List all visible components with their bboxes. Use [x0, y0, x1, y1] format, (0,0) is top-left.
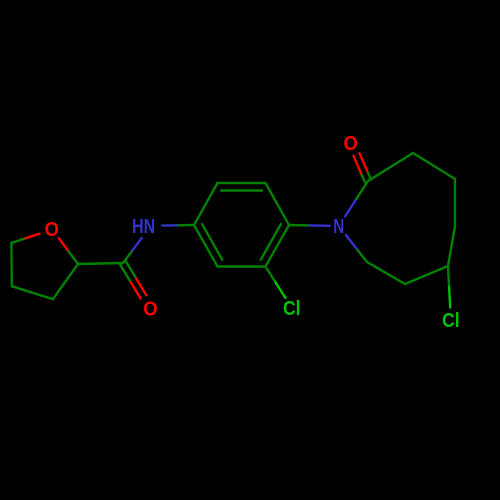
lactam C=O double bond line1 (C2r half)	[367, 171, 371, 180]
amide C=O double bond line2 (AC half)	[126, 261, 137, 279]
aromatic inner line BL-L	[202, 224, 222, 260]
svg-text:O: O	[45, 219, 59, 241]
bond O1-C2 (oxolane) (C2 half)	[68, 251, 78, 264]
lactam C=O double bond line1 (Or half)	[360, 153, 368, 171]
bond O1-C2 (oxolane) (O1 half)	[59, 238, 69, 251]
bond C5-O1 (oxolane) (C5 half)	[11, 238, 25, 243]
aromatic inner line R-BR	[261, 224, 281, 260]
lactam C=O double bond line2 (C2r half)	[361, 174, 365, 183]
bond C8r-N2 (N2 half)	[346, 235, 357, 248]
bond C-Cl (benzene) (BR half)	[266, 267, 276, 283]
bond C4-C5 (oxolane)	[10, 243, 13, 286]
bond C3-C4 (oxolane)	[12, 286, 53, 299]
amide C-N bond (AN half)	[132, 238, 141, 251]
bond C-Cl (benzene) (CLB half)	[275, 282, 285, 298]
bond L-TL	[194, 183, 218, 225]
bond C8r-N2 (C8r half)	[356, 249, 367, 263]
aromatic inner line TL-TR	[221, 189, 262, 191]
svg-text:Cl: Cl	[442, 310, 460, 332]
amide C=O double bond line1 (AC half)	[120, 265, 131, 283]
bond BR-BL	[218, 265, 266, 267]
svg-text:Cl: Cl	[283, 298, 301, 320]
lactam C=O double bond line2 (Or half)	[354, 156, 362, 174]
svg-text:O: O	[343, 133, 357, 155]
bond C6r-C7r	[405, 266, 448, 284]
svg-text:O: O	[143, 298, 157, 320]
bond R-BR	[266, 225, 290, 267]
bond TR-R	[266, 183, 290, 225]
amide C=O double bond line2 (AO half)	[136, 279, 146, 295]
bond benzene-N (right ring) (N2 half)	[309, 224, 329, 227]
bond benzene-N (right ring) (R half)	[289, 224, 309, 227]
bond C5r-C6r	[448, 226, 455, 266]
bond C2-amide carbonyl C	[78, 263, 123, 264]
svg-text:HN: HN	[132, 216, 155, 238]
amide C=O double bond line1 (AO half)	[131, 282, 141, 298]
bond N2-C2r (C2r half)	[357, 181, 369, 199]
bond N2-C2r (N2 half)	[345, 199, 356, 217]
bond C2-C3 (oxolane)	[53, 264, 78, 299]
bond C-Cl (right ring) (CL2 half)	[449, 287, 450, 308]
bond C3r-C4r	[413, 153, 455, 179]
bond C-Cl (right ring) (C6r half)	[448, 266, 449, 287]
bond C7r-C8r	[367, 262, 405, 284]
bond TL-TR	[218, 182, 266, 184]
bond HN-benzene (AN half)	[162, 224, 178, 227]
bond HN-benzene (L half)	[178, 224, 194, 227]
bond C4r-C5r	[454, 179, 456, 226]
bond C2r-C3r	[368, 153, 413, 181]
svg-text:N: N	[333, 216, 344, 238]
bond C5-O1 (oxolane) (O1 half)	[25, 234, 39, 239]
bond BL-L	[194, 225, 218, 267]
amide C-N bond (AC half)	[123, 251, 132, 264]
